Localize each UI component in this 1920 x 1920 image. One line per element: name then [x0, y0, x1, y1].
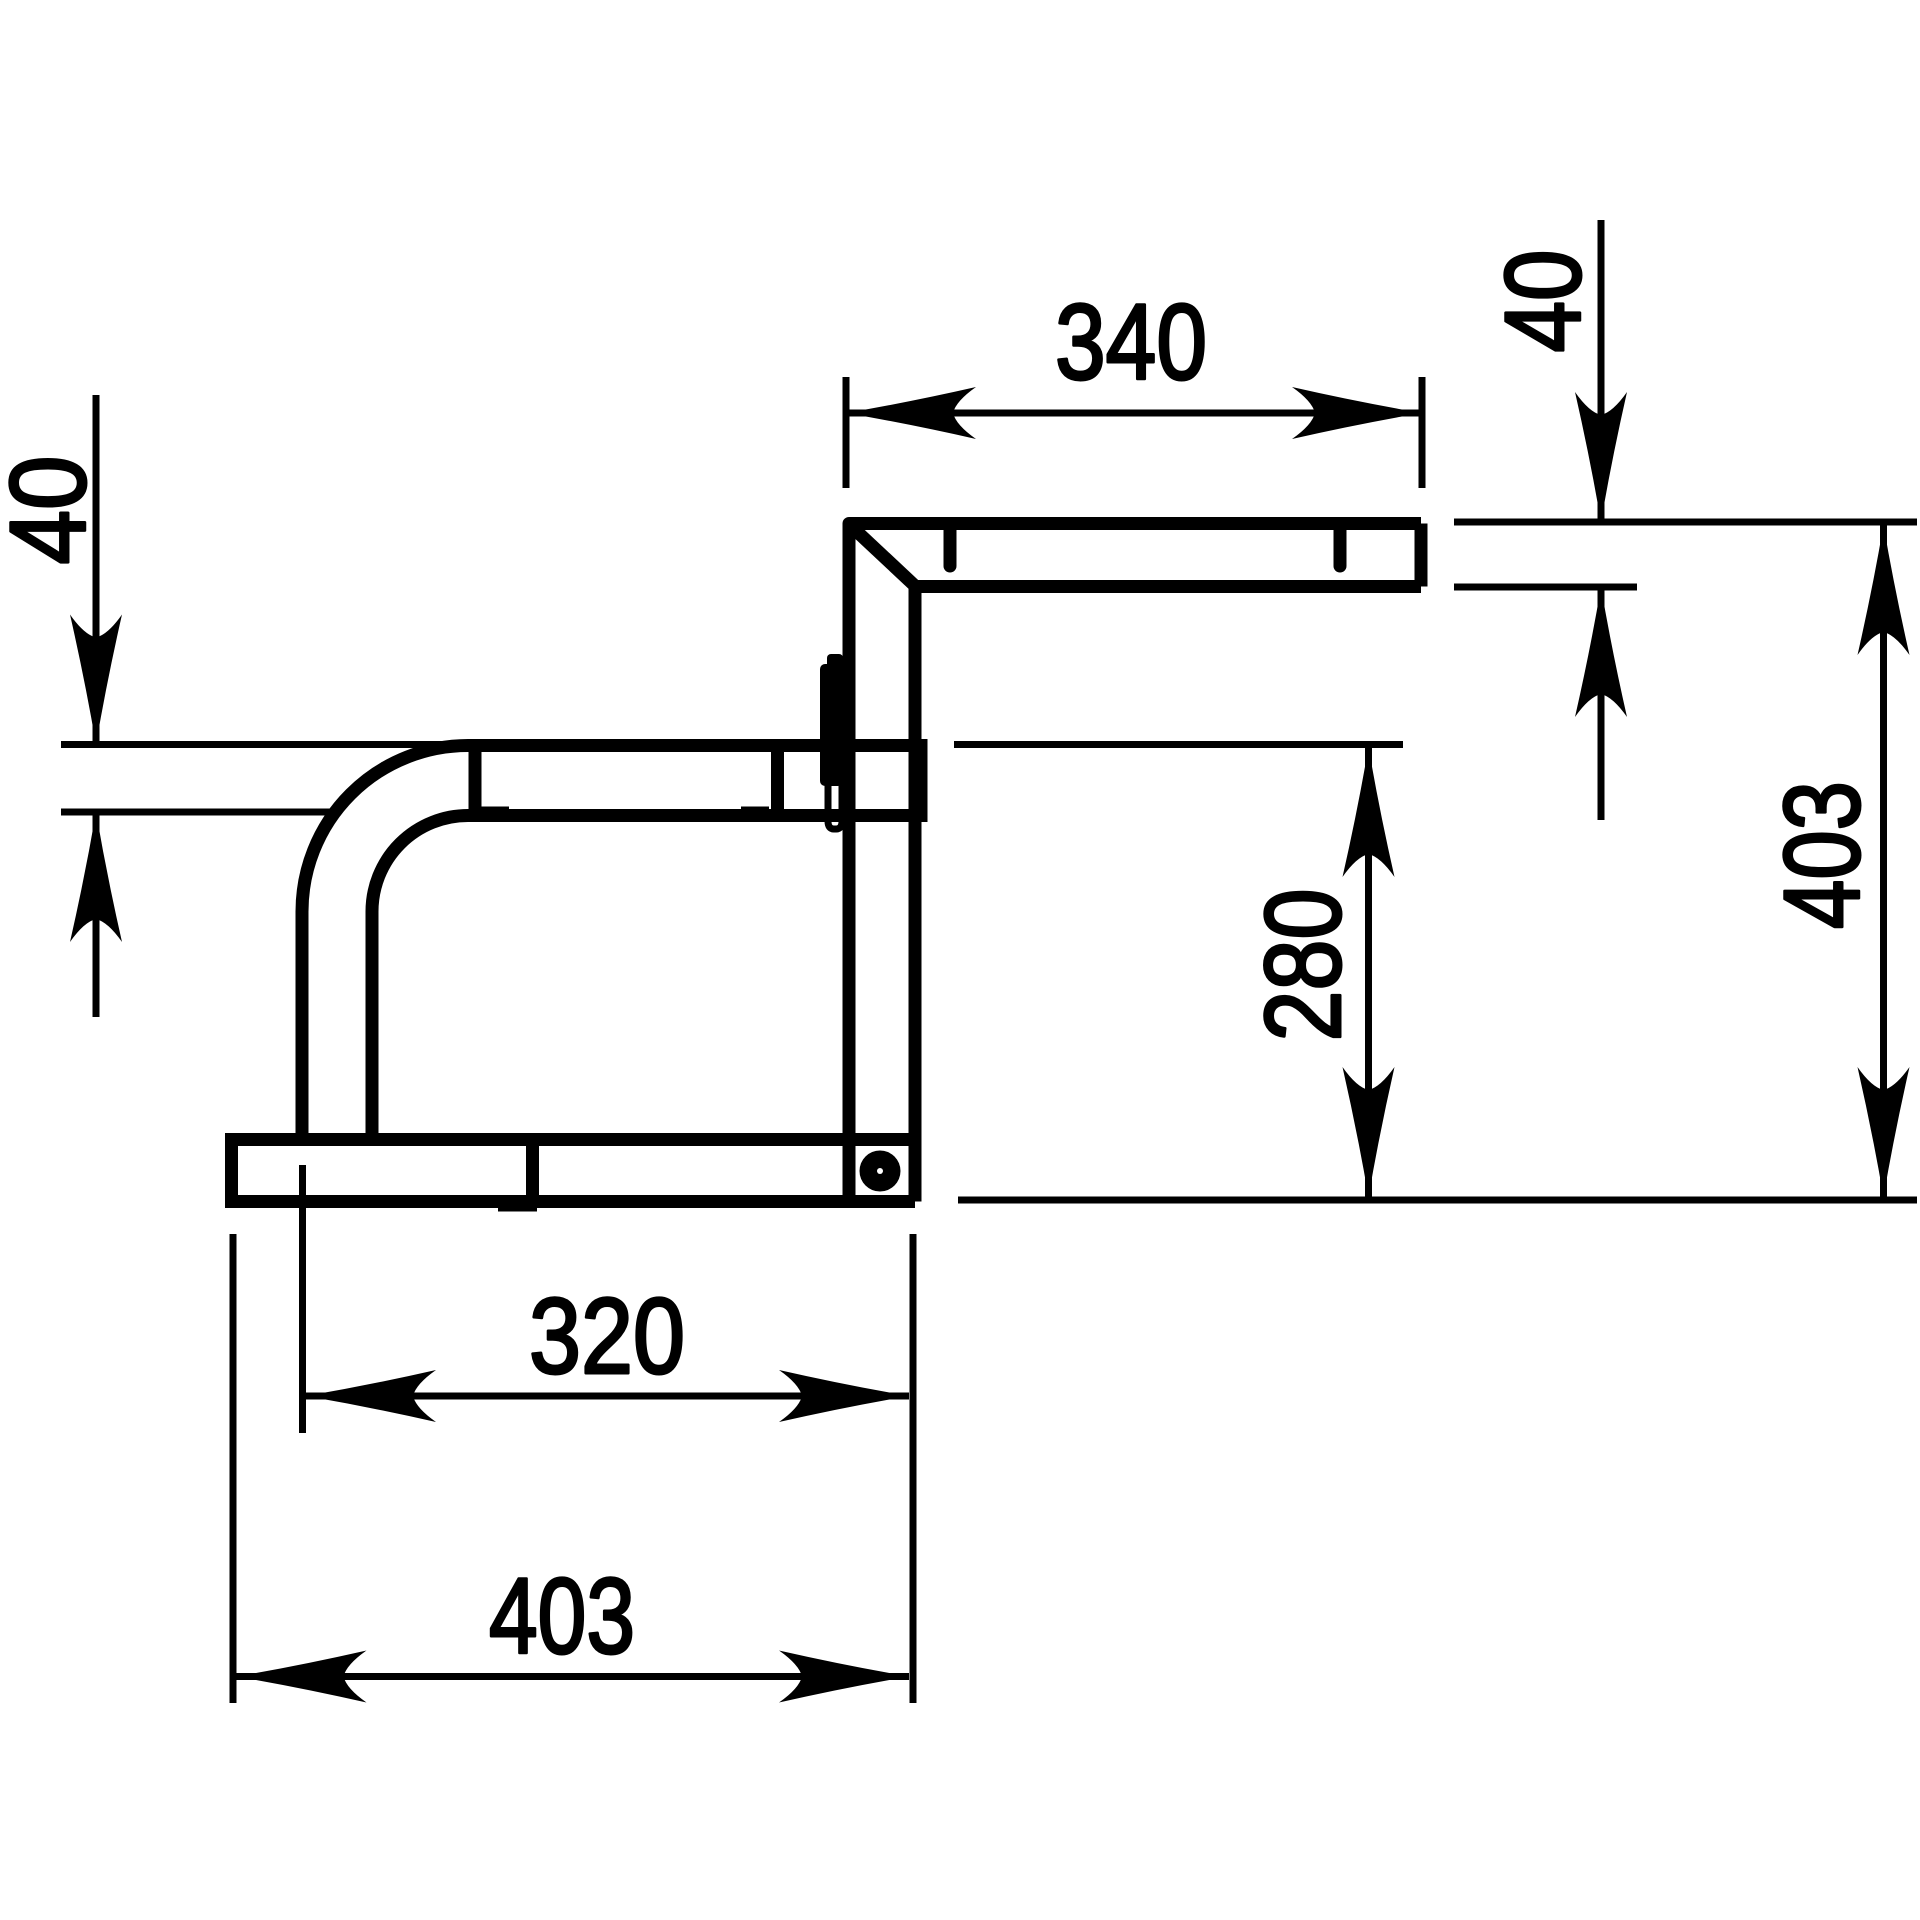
- weld dash step bottom 1: [478, 807, 509, 814]
- extension line platform left (x=846): [843, 377, 850, 488]
- weld dash base bottom left: [248, 1196, 268, 1203]
- svg-text:340: 340: [1055, 281, 1207, 402]
- lower step right end cap: [915, 746, 928, 816]
- lower step left joint divider: [469, 746, 482, 816]
- arrow 403 right up: [1858, 525, 1910, 655]
- svg-text:320: 320: [529, 1275, 685, 1396]
- svg-text:280: 280: [1242, 889, 1363, 1042]
- lower step joint divider: [771, 746, 784, 816]
- arrow 40 top-right up: [1575, 587, 1627, 717]
- arrow 280 up: [1343, 747, 1395, 877]
- extension line top edge right (y=523.5): [1454, 519, 1917, 526]
- arrow 280 down: [1343, 1067, 1395, 1197]
- dimension line 280: [1365, 747, 1372, 1197]
- lower step tube top edge: [468, 739, 921, 752]
- arrow 403 right down: [1858, 1067, 1910, 1197]
- dimension line 40 top-right upper: [1598, 220, 1605, 522]
- base rail top edge: [232, 1133, 916, 1146]
- clamp detail body on post: [820, 664, 843, 786]
- top platform tube: bottom edge + right post edge: [915, 587, 1421, 1202]
- arrow 320 right: [779, 1370, 909, 1422]
- dimension line 40 left upper: [93, 395, 100, 744]
- extension line bottom edge right (y=589): [1454, 584, 1637, 591]
- lower step tube bottom edge: [468, 809, 921, 822]
- bent tube outer curve and front leg left edge: [302, 746, 468, 1141]
- base rail bottom edge: [232, 1195, 916, 1208]
- extension line platform right (x=1422): [1419, 377, 1426, 488]
- dimension line 403 right: [1880, 525, 1887, 1197]
- arrow 403 bottom left: [237, 1651, 367, 1703]
- svg-text:403: 403: [489, 1555, 635, 1676]
- arrow 320 left: [306, 1370, 436, 1422]
- arrow 40 left down: [70, 615, 122, 745]
- extension line base right (x=913): [910, 1234, 917, 1703]
- weld mark base bottom: [498, 1199, 537, 1212]
- bolt center dot: [877, 1168, 883, 1174]
- bent tube inner curve and front leg right edge: [372, 816, 468, 1141]
- weld dash step bottom 2: [741, 807, 769, 814]
- ground reference line: [958, 1197, 1917, 1204]
- svg-text:40: 40: [0, 456, 108, 565]
- dimension line 40 left lower: [93, 812, 100, 1017]
- bolt head circle: [860, 1151, 901, 1192]
- dimension line 403 bottom: [237, 1673, 910, 1680]
- platform screw stub 1: [944, 528, 957, 566]
- svg-text:40: 40: [1482, 250, 1603, 353]
- dimension line 40 top-right lower: [1598, 587, 1605, 820]
- extension line front leg (x=302.5): [299, 1165, 306, 1433]
- top platform right end cap: [1415, 524, 1428, 587]
- top platform tube: top edge + left post edge: [849, 524, 1421, 1202]
- arrow 40 top-right down: [1575, 392, 1627, 522]
- dimension line 340: [846, 410, 1422, 417]
- arrow 340 left: [846, 387, 976, 439]
- base rail joint divider: [526, 1140, 539, 1202]
- extension line base left (x=233): [230, 1234, 237, 1703]
- miter joint diagonal: [851, 526, 914, 585]
- platform screw stub 2: [1334, 528, 1347, 566]
- arrow 340 right: [1292, 387, 1422, 439]
- clamp detail lower hook: [828, 783, 842, 829]
- base rail left end cap: [225, 1140, 238, 1202]
- clamp detail top step: [827, 654, 843, 674]
- extension line step top right (y=744.5): [954, 741, 1403, 748]
- arrow 40 left up: [70, 812, 122, 942]
- extension line step bottom left (y=812): [61, 809, 334, 816]
- extension line step top left (y=744.5): [61, 741, 460, 748]
- dimension line 320: [306, 1393, 909, 1400]
- svg-text:403: 403: [1761, 781, 1882, 929]
- arrow 403 bottom right: [779, 1651, 909, 1703]
